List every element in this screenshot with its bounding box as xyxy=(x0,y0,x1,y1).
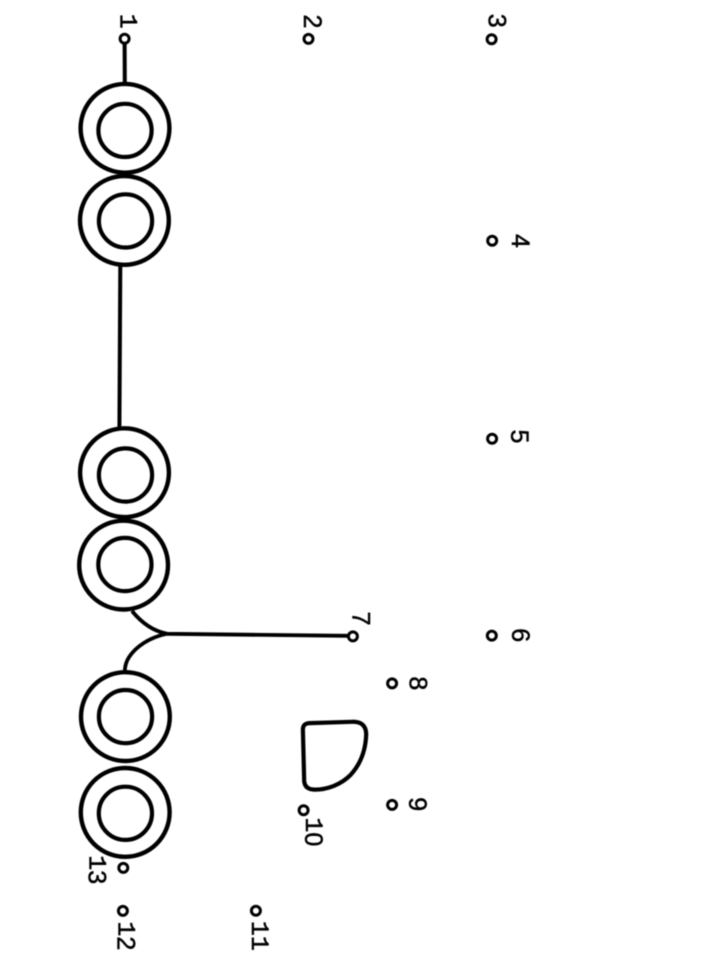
node 9 xyxy=(388,800,397,809)
svg-text:10: 10 xyxy=(299,817,328,846)
node 3 xyxy=(487,35,496,44)
node 1 xyxy=(120,34,129,43)
svg-text:1: 1 xyxy=(113,14,142,29)
node 10 xyxy=(299,806,308,815)
wheel W4 inner xyxy=(98,538,151,591)
wheel W5 inner xyxy=(99,690,152,743)
node 12 xyxy=(118,906,127,915)
node 7 xyxy=(348,632,357,641)
node 2 xyxy=(304,34,313,43)
wheel W6 inner xyxy=(99,787,152,840)
node 6 xyxy=(487,631,496,640)
window shape xyxy=(303,722,366,790)
wheel W3 outer xyxy=(80,428,169,517)
svg-text:9: 9 xyxy=(403,797,431,811)
wheel W5 outer xyxy=(81,672,170,761)
node 4 xyxy=(488,236,497,245)
wheel W3 inner xyxy=(99,448,152,501)
svg-text:5: 5 xyxy=(505,429,533,443)
svg-text:8: 8 xyxy=(404,676,432,690)
wheel W6 outer xyxy=(81,768,170,857)
wheel W2 outer xyxy=(80,176,169,265)
wire xyxy=(132,611,348,636)
node 11 xyxy=(251,906,260,915)
svg-text:2: 2 xyxy=(298,14,326,28)
wheel W1 inner xyxy=(98,104,151,157)
wheel W1 outer xyxy=(81,84,170,173)
svg-text:11: 11 xyxy=(244,921,273,951)
node 8 xyxy=(388,679,397,688)
svg-text:6: 6 xyxy=(506,628,534,642)
svg-text:12: 12 xyxy=(111,921,140,950)
svg-text:13: 13 xyxy=(82,855,111,884)
node 13 xyxy=(119,863,128,872)
svg-text:4: 4 xyxy=(506,234,534,248)
wheel W4 outer xyxy=(79,521,168,610)
svg-text:7: 7 xyxy=(347,612,375,626)
wire xyxy=(125,634,167,671)
svg-text:3: 3 xyxy=(483,14,511,28)
wheel W2 inner xyxy=(99,194,152,247)
wire xyxy=(117,264,122,429)
wire xyxy=(123,42,127,83)
node 5 xyxy=(488,434,497,443)
